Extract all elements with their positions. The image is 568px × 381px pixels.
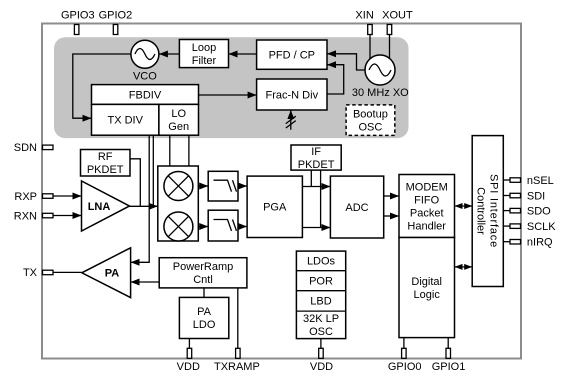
- wire mixer M2 to F2: [198, 226, 208, 228]
- pin GPIO1: [432, 348, 466, 373]
- wire PGA to ADC Q: [302, 227, 330, 229]
- wire LO Gen to mixer M2: [188, 135, 190, 166]
- mixer M2: [164, 212, 193, 241]
- svg-text:PKDET: PKDET: [87, 164, 124, 176]
- pin SDN: [14, 142, 53, 154]
- svg-text:POR: POR: [309, 276, 333, 288]
- wire power ramp to PA: [131, 281, 160, 283]
- svg-text:OSC: OSC: [309, 326, 333, 338]
- SPI interface controller: [472, 136, 503, 287]
- wire VCO feedback to TX DIV: [73, 54, 131, 118]
- svg-text:Logic: Logic: [414, 289, 441, 301]
- svg-text:LBD: LBD: [310, 296, 331, 308]
- wire modem to SPI bus: [455, 205, 473, 207]
- pin XIN: [355, 10, 373, 35]
- bootup oscillator: [346, 105, 395, 135]
- svg-text:LNA: LNA: [88, 201, 111, 213]
- pin RXN: [14, 210, 53, 222]
- IF peak detector: [291, 145, 341, 171]
- svg-text:IF: IF: [311, 146, 321, 158]
- wire FBDIV to Frac-N: [199, 94, 257, 96]
- svg-text:PA: PA: [105, 268, 120, 280]
- loop filter: [179, 40, 228, 68]
- PA: [82, 248, 131, 298]
- wire power ramp to TXRAMP pin: [237, 288, 239, 348]
- svg-text:32K LP: 32K LP: [303, 313, 339, 325]
- LNA: [82, 181, 130, 231]
- 30 MHz crystal oscillator: [352, 55, 409, 99]
- wire F2 to PGA: [238, 226, 247, 228]
- svg-text:Gen: Gen: [168, 121, 189, 133]
- PGA: [247, 176, 302, 237]
- wire SPI to SDI: [503, 195, 510, 197]
- svg-text:OSC: OSC: [358, 122, 382, 134]
- wire digital logic to SPI bus: [455, 266, 473, 268]
- wire ADC to modem 1: [384, 195, 399, 197]
- VCO U-VCO: [131, 40, 159, 82]
- svg-text:ADC: ADC: [345, 202, 368, 214]
- svg-text:LO: LO: [171, 108, 186, 120]
- pin TXRAMP: [214, 348, 260, 373]
- ADC: [330, 176, 383, 238]
- wire ADC to modem 2: [384, 215, 399, 217]
- svg-text:Frac-N Div: Frac-N Div: [266, 89, 319, 101]
- wire LO Gen to mixer M1: [169, 135, 171, 166]
- svg-text:PA: PA: [197, 306, 212, 318]
- wire XIN to XO: [369, 35, 371, 59]
- svg-text:Bootup: Bootup: [353, 109, 388, 121]
- wire LDO stack to VDD pin: [320, 339, 322, 349]
- svg-text:GPIO3: GPIO3: [61, 10, 95, 22]
- wire RXP to LNA: [53, 195, 82, 197]
- svg-text:Filter: Filter: [192, 55, 217, 67]
- Frac-N divider: [257, 79, 327, 110]
- svg-text:RXN: RXN: [14, 210, 37, 222]
- svg-text:XOUT: XOUT: [382, 10, 413, 22]
- PA LDO: [179, 297, 228, 338]
- wire RF PKDET tap: [130, 159, 140, 207]
- PLL synthesizer grey region: [54, 37, 409, 138]
- wire IF PKDET tap Q: [320, 170, 322, 227]
- pin SDI: [510, 190, 545, 202]
- wire mixer M1 to F1: [198, 185, 208, 187]
- pin XOUT: [382, 10, 413, 35]
- svg-text:VDD: VDD: [177, 361, 200, 373]
- wire XO to PFD: [327, 54, 365, 70]
- lowpass filter F2: [208, 210, 238, 241]
- wire SPI to nSEL: [503, 179, 510, 181]
- svg-text:VDD: VDD: [310, 361, 333, 373]
- svg-text:GPIO0: GPIO0: [388, 361, 422, 373]
- pin SDO: [510, 205, 551, 217]
- svg-text:FIFO: FIFO: [414, 194, 439, 206]
- svg-text:TX DIV: TX DIV: [107, 115, 143, 127]
- svg-text:Handler: Handler: [407, 220, 446, 232]
- svg-text:Packet: Packet: [410, 207, 444, 219]
- TX DIV: [92, 104, 159, 135]
- wire TX DIV to mixer input node: [152, 135, 154, 206]
- power ramp control: [159, 258, 247, 288]
- wire F1 to PGA: [238, 185, 247, 187]
- svg-text:PowerRamp: PowerRamp: [173, 261, 234, 273]
- pin nIRQ: [510, 237, 553, 249]
- wire PA LDO to VDD pin: [188, 339, 190, 349]
- svg-text:TXRAMP: TXRAMP: [214, 361, 260, 373]
- svg-text:LDO: LDO: [193, 319, 216, 331]
- mixer M1: [164, 172, 193, 201]
- svg-text:RXP: RXP: [14, 191, 37, 203]
- wire PGA to ADC I: [302, 186, 330, 188]
- wire SPI to SDO: [503, 210, 510, 212]
- svg-text:TX: TX: [23, 267, 38, 279]
- LDO stack: [296, 251, 345, 339]
- svg-text:MODEM: MODEM: [406, 181, 448, 193]
- wire SPI to nIRQ: [503, 241, 510, 243]
- lowpass filter F1: [208, 171, 238, 201]
- modulation arrow into Frac-N: [286, 110, 296, 130]
- svg-text:SDN: SDN: [14, 142, 37, 154]
- pin RXP: [14, 191, 53, 203]
- pin nSEL: [510, 175, 554, 187]
- pin VDD left: [177, 348, 200, 373]
- svg-text:RF: RF: [98, 151, 113, 163]
- pin VDD middle: [310, 348, 333, 373]
- svg-text:PKDET: PKDET: [298, 159, 335, 171]
- svg-text:Cntl: Cntl: [193, 274, 213, 286]
- wire TX DIV to PA: [131, 135, 150, 262]
- FBDIV: [92, 85, 199, 105]
- wire digital logic to GPIO1: [447, 338, 449, 349]
- pin SCLK: [510, 221, 556, 233]
- digital logic: [399, 238, 455, 338]
- PFD / CP: [257, 40, 327, 69]
- mixer block: [158, 166, 199, 241]
- svg-text:Digital: Digital: [411, 276, 442, 288]
- wire digital logic to GPIO0: [403, 338, 405, 349]
- svg-text:PGA: PGA: [263, 202, 287, 214]
- pin GPIO3: [61, 10, 95, 35]
- svg-text:30 MHz XO: 30 MHz XO: [352, 87, 409, 99]
- wire loop filter to VCO: [159, 53, 180, 55]
- svg-text:nIRQ: nIRQ: [527, 237, 553, 249]
- svg-text:XIN: XIN: [355, 10, 373, 22]
- svg-text:Loop: Loop: [192, 42, 216, 54]
- pin GPIO0: [388, 348, 422, 373]
- pin GPIO2: [99, 10, 133, 35]
- svg-text:PFD / CP: PFD / CP: [269, 49, 315, 61]
- RF peak detector: [81, 150, 131, 177]
- wire PA to TX pin: [53, 271, 82, 273]
- chip outline: [42, 24, 521, 359]
- svg-text:VCO: VCO: [133, 71, 157, 83]
- wire SPI to SCLK: [503, 225, 510, 227]
- wire LNA output to mixers: [130, 205, 158, 207]
- wire XOUT to XO: [389, 35, 391, 59]
- svg-text:LDOs: LDOs: [307, 256, 336, 268]
- wire IF PKDET tap I: [310, 170, 312, 186]
- svg-text:FBDIV: FBDIV: [129, 89, 162, 101]
- svg-text:SCLK: SCLK: [527, 221, 556, 233]
- svg-text:SDO: SDO: [527, 205, 551, 217]
- LO generator: [159, 104, 199, 135]
- svg-text:SDI: SDI: [527, 190, 545, 202]
- wire power ramp to PA LDO: [203, 288, 205, 298]
- svg-text:GPIO2: GPIO2: [99, 10, 133, 22]
- wire PFD to loop filter: [229, 53, 257, 55]
- svg-text:nSEL: nSEL: [527, 175, 554, 187]
- wire Frac-N to PFD: [327, 65, 344, 94]
- modem fifo packet handler: [399, 175, 455, 238]
- pin TX: [23, 267, 53, 279]
- wire RXN to LNA: [53, 215, 82, 217]
- svg-text:GPIO1: GPIO1: [432, 361, 466, 373]
